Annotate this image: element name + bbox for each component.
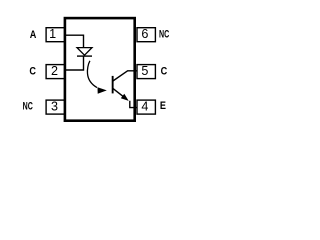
LED D1 cathode bar bbox=[77, 55, 92, 57]
svg-text:E: E bbox=[160, 100, 166, 112]
wire LED cathode to pin2 bbox=[64, 56, 84, 70]
phototransistor Q1 emitter arrowhead bbox=[121, 94, 129, 101]
svg-text:6: 6 bbox=[141, 27, 148, 41]
svg-text:1: 1 bbox=[49, 27, 56, 41]
light emission arrowhead bbox=[98, 87, 107, 94]
light emission arrow shaft bbox=[87, 61, 97, 88]
svg-text:3: 3 bbox=[51, 100, 58, 114]
svg-text:5: 5 bbox=[141, 64, 148, 78]
pin 1 box bbox=[46, 28, 65, 42]
svg-text:2: 2 bbox=[51, 64, 58, 78]
package outline U1 bbox=[65, 18, 135, 121]
pin 3 box bbox=[46, 100, 65, 114]
pin 6 box bbox=[137, 28, 155, 42]
svg-text:4: 4 bbox=[141, 100, 148, 114]
svg-text:A: A bbox=[30, 29, 37, 41]
pin 2 box bbox=[46, 65, 65, 79]
svg-text:NC: NC bbox=[23, 100, 33, 113]
wire emitter to pin4 bbox=[130, 101, 138, 108]
svg-text:C: C bbox=[29, 66, 36, 78]
LED D1 anode triangle bbox=[77, 48, 92, 56]
pin 5 box bbox=[137, 65, 155, 79]
phototransistor Q1 emitter lead bbox=[113, 88, 125, 97]
phototransistor Q1 collector lead to pin5 bbox=[113, 71, 138, 81]
pin 4 box bbox=[137, 100, 155, 114]
svg-text:C: C bbox=[161, 66, 168, 78]
svg-text:NC: NC bbox=[159, 28, 169, 41]
wire pin1 to LED anode bbox=[64, 35, 84, 47]
phototransistor Q1 base bar bbox=[112, 76, 114, 94]
